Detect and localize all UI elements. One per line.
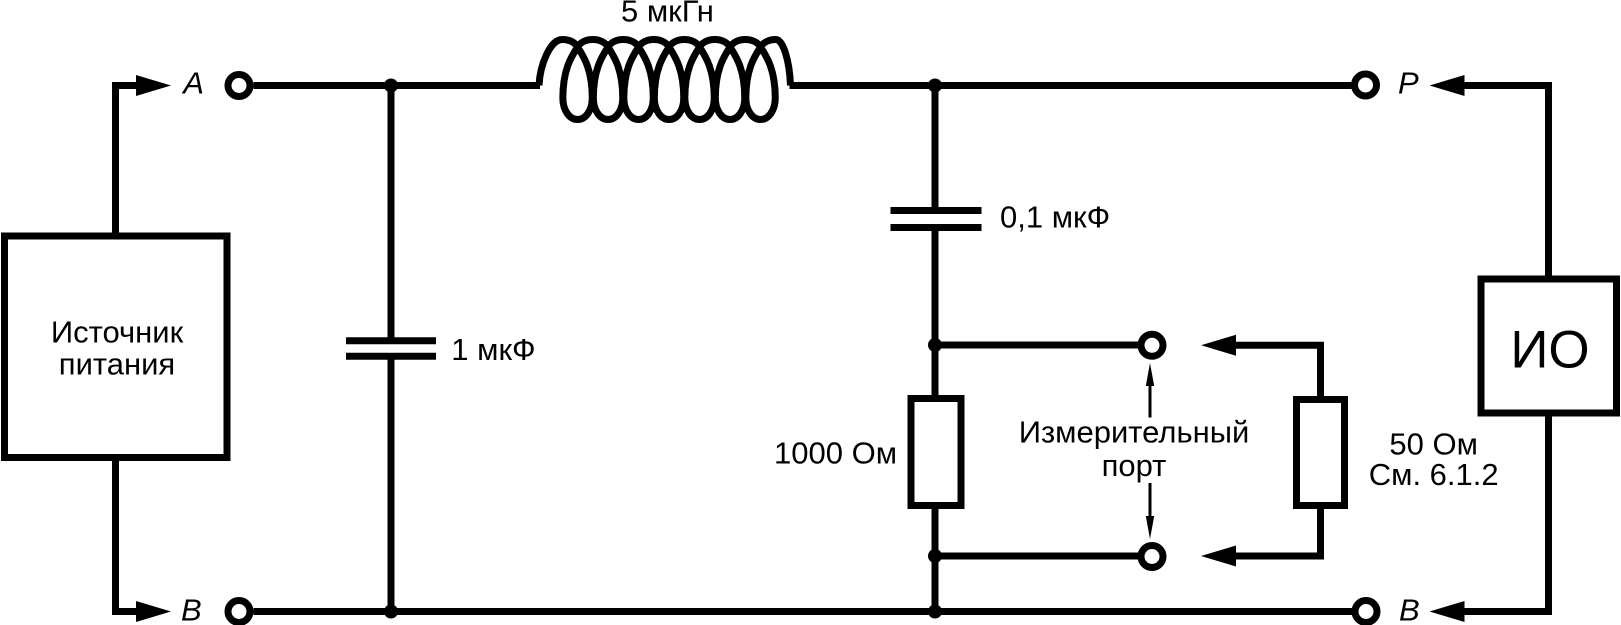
box ИО <box>1481 279 1617 413</box>
wire measurement port bottom line <box>935 553 1140 560</box>
svg-text:1 мкФ: 1 мкФ <box>451 332 535 367</box>
node junction top at x=935 <box>928 79 942 93</box>
wire and arrow into terminal B from power source <box>116 458 141 612</box>
measurement port up arrow <box>1149 382 1152 418</box>
svg-text:P: P <box>1398 66 1419 101</box>
wire branch down from node x=391 to capacitor 1 мкФ <box>388 86 395 341</box>
wire branch down from node x=935 to capacitor 0,1 мкФ <box>932 86 939 211</box>
arrow into measurement port top from 50 Ом resistor <box>1233 345 1321 399</box>
svg-text:ИО: ИО <box>1510 321 1589 380</box>
node junction at measurement port bottom <box>928 549 942 563</box>
svg-text:B: B <box>181 593 202 625</box>
capacitor 1 мкФ <box>346 341 436 356</box>
wire bottom line <box>254 608 1353 615</box>
terminal B circle (bottom left) <box>228 601 250 623</box>
power source box <box>5 236 228 458</box>
svg-text:B: B <box>1399 593 1420 625</box>
svg-text:порт: порт <box>1102 448 1167 483</box>
measurement port bottom circle <box>1141 546 1163 568</box>
resistor R 1000 Ом <box>911 399 961 506</box>
terminal B circle (bottom right) <box>1355 601 1377 623</box>
svg-text:питания: питания <box>59 347 175 382</box>
wire from capacitor 1 мкФ down to bottom line <box>388 356 395 611</box>
wire and arrow into terminal A from power source <box>116 86 141 237</box>
capacitor 0,1 мкФ <box>891 211 982 228</box>
svg-text:A: A <box>181 66 204 101</box>
svg-text:Измерительный: Измерительный <box>1019 414 1250 449</box>
resistor 50 Ом <box>1297 400 1345 506</box>
node junction bottom at x=935 <box>928 605 942 619</box>
wire from resistor 1000 Ом down to node <box>932 506 939 557</box>
terminal A circle <box>228 75 250 97</box>
node junction at measurement port top <box>928 338 942 352</box>
svg-text:0,1 мкФ: 0,1 мкФ <box>1000 199 1110 234</box>
svg-text:1000 Ом: 1000 Ом <box>774 436 897 471</box>
inductor L 5 мкГн <box>539 40 791 120</box>
arrow into terminal P from ИО <box>1462 86 1549 280</box>
arrow into measurement port bottom from 50 Ом resistor <box>1233 506 1321 557</box>
svg-text:Источник: Источник <box>51 315 184 350</box>
wire from node down to resistor 1000 Ом <box>932 345 939 399</box>
svg-text:См. 6.1.2: См. 6.1.2 <box>1369 457 1499 492</box>
wire top: terminal A to inductor <box>254 82 541 89</box>
wire and arrow into terminal B (bottom right) from ИО box <box>1462 413 1549 612</box>
measurement port down arrow <box>1149 483 1152 516</box>
terminal P circle <box>1355 74 1377 96</box>
wire from capacitor 0,1 мкФ down to node <box>932 228 939 346</box>
svg-text:5 мкГн: 5 мкГн <box>621 0 714 29</box>
measurement port top circle <box>1141 334 1163 356</box>
wire measurement port top line <box>935 342 1140 349</box>
wire from node down to bottom line <box>932 556 939 612</box>
node junction bottom at x=391 <box>384 605 398 619</box>
node junction top at x=391 <box>384 79 398 93</box>
wire top: inductor to terminal P <box>790 82 1353 89</box>
